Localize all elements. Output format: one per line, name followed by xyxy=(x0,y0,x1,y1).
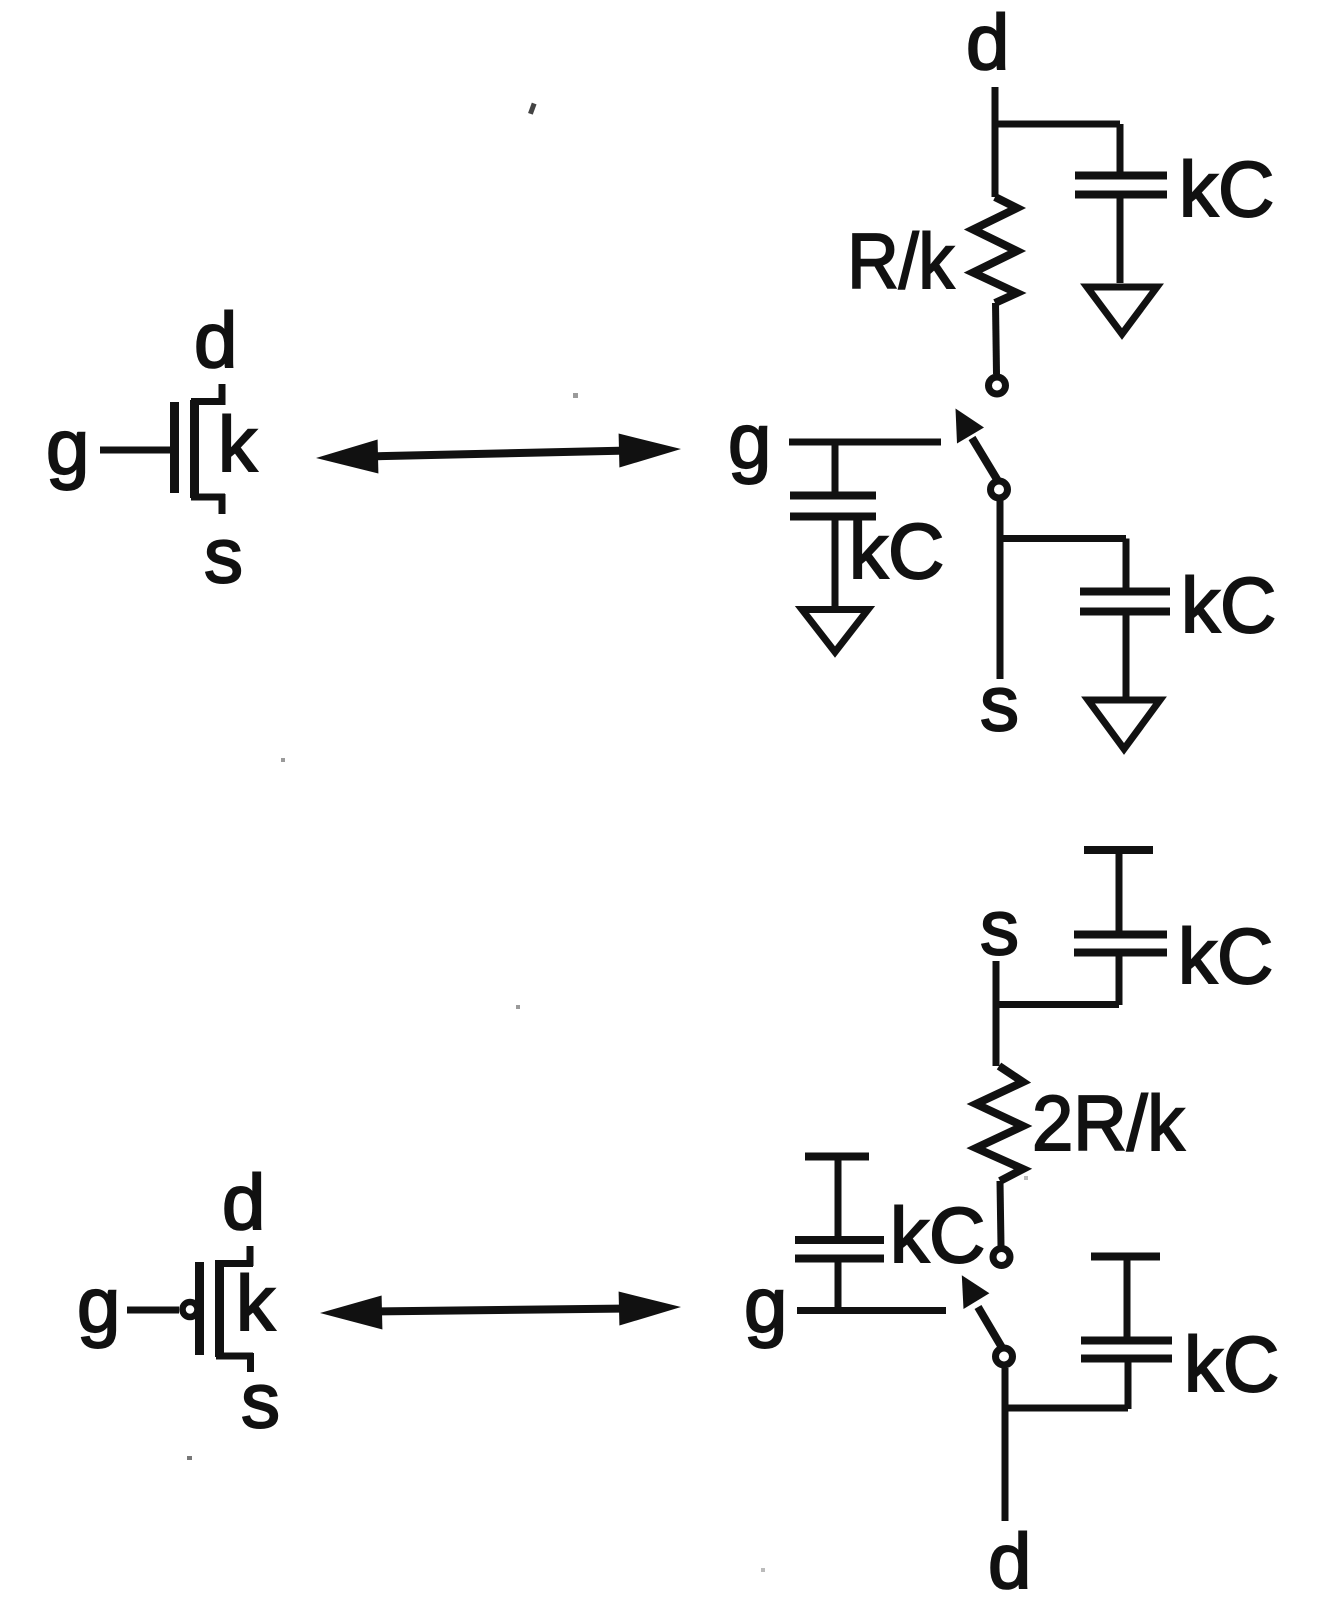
svg-text:g: g xyxy=(744,1261,787,1349)
svg-text:s: s xyxy=(980,883,1019,971)
svg-text:s: s xyxy=(980,659,1019,747)
svg-text:g: g xyxy=(46,403,89,491)
svg-text:d: d xyxy=(988,1517,1031,1600)
svg-text:d: d xyxy=(966,0,1009,86)
svg-text:kC: kC xyxy=(1181,561,1276,649)
svg-text:kC: kC xyxy=(890,1191,985,1279)
svg-text:kC: kC xyxy=(1178,912,1273,1000)
svg-text:kC: kC xyxy=(1184,1320,1279,1408)
svg-text:2R/k: 2R/k xyxy=(1032,1080,1185,1167)
svg-text:kC: kC xyxy=(1179,145,1274,233)
svg-text:kC: kC xyxy=(849,507,944,595)
svg-text:s: s xyxy=(241,1356,280,1444)
svg-text:R/k: R/k xyxy=(847,217,955,305)
svg-text:g: g xyxy=(77,1261,120,1349)
svg-text:k: k xyxy=(236,1259,276,1347)
svg-text:d: d xyxy=(194,296,237,384)
svg-text:s: s xyxy=(204,511,243,599)
svg-text:g: g xyxy=(728,397,771,485)
svg-text:k: k xyxy=(218,400,258,488)
svg-text:d: d xyxy=(222,1158,265,1246)
